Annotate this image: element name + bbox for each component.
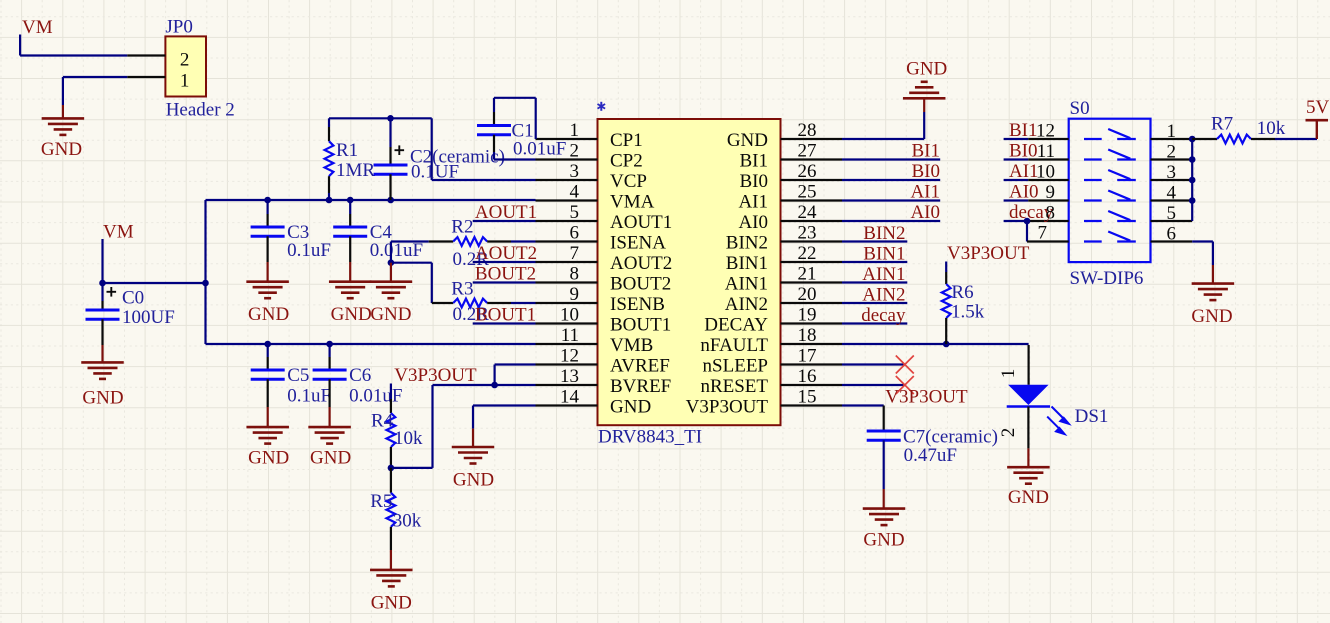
svg-text:AI0: AI0 xyxy=(1009,182,1039,203)
svg-text:ISENA: ISENA xyxy=(610,233,666,254)
svg-text:0.47uF: 0.47uF xyxy=(904,445,957,466)
svg-text:0.1UF: 0.1UF xyxy=(411,162,459,183)
svg-text:R3: R3 xyxy=(451,278,473,299)
svg-text:nSLEEP: nSLEEP xyxy=(703,356,768,377)
wire VCP net top xyxy=(329,118,536,180)
svg-text:V3P3OUT: V3P3OUT xyxy=(686,397,769,418)
svg-text:BOUT1: BOUT1 xyxy=(610,315,671,336)
svg-text:2: 2 xyxy=(180,49,190,70)
svg-text:BI0: BI0 xyxy=(740,171,769,192)
node C6 tap xyxy=(326,341,333,348)
svg-text:7: 7 xyxy=(570,243,580,264)
svg-text:nFAULT: nFAULT xyxy=(700,335,768,356)
node sense ground junction xyxy=(388,259,395,266)
svg-text:AVREF: AVREF xyxy=(610,356,670,377)
wire JP0 pin 1 to ground xyxy=(63,77,127,118)
svg-text:11: 11 xyxy=(561,325,579,346)
svg-text:10k: 10k xyxy=(1257,118,1286,139)
wire S0 pin 6 to ground xyxy=(1192,242,1213,284)
node R1 tap xyxy=(326,197,333,204)
node left column junction xyxy=(202,280,209,287)
svg-text:26: 26 xyxy=(798,161,817,182)
svg-text:23: 23 xyxy=(798,222,817,243)
svg-text:0.1uF: 0.1uF xyxy=(287,240,331,261)
svg-text:16: 16 xyxy=(798,366,817,387)
svg-text:20: 20 xyxy=(798,284,817,305)
svg-text:6: 6 xyxy=(1167,224,1177,245)
svg-text:4: 4 xyxy=(1167,183,1177,204)
U1 right pins 28-15 with numbers and names xyxy=(686,120,842,418)
node bus tap xyxy=(1189,136,1196,143)
svg-text:AOUT2: AOUT2 xyxy=(610,253,672,274)
node VM junction xyxy=(99,280,106,287)
wire BI0 stub with net label xyxy=(842,161,940,182)
ground at sense node xyxy=(370,263,413,325)
svg-text:BIN2: BIN2 xyxy=(863,223,905,244)
resistor R5 30k xyxy=(370,468,422,570)
svg-text:21: 21 xyxy=(798,263,817,284)
svg-text:R1: R1 xyxy=(336,140,358,161)
resistor R3 0.2R xyxy=(432,278,536,325)
wire C1 bottom to pin 2 xyxy=(494,158,536,160)
wire sense node to R3 xyxy=(391,263,432,303)
svg-text:JP0: JP0 xyxy=(165,16,192,37)
svg-text:19: 19 xyxy=(798,304,817,325)
svg-text:1: 1 xyxy=(998,369,1019,379)
wire VM down to junction xyxy=(101,239,103,283)
ground below C4 xyxy=(329,282,372,325)
svg-text:AOUT2: AOUT2 xyxy=(475,243,537,264)
svg-text:C0: C0 xyxy=(122,287,144,308)
svg-text:AIN2: AIN2 xyxy=(725,294,768,315)
svg-text:5V: 5V xyxy=(1306,97,1330,118)
resistor R2 0.2R xyxy=(429,217,536,271)
svg-text:0.01uF: 0.01uF xyxy=(370,240,423,261)
svg-text:GND: GND xyxy=(1008,487,1049,508)
wire AI0 stub with net label xyxy=(842,202,940,223)
node R6 junction xyxy=(943,341,950,348)
svg-text:1: 1 xyxy=(180,71,190,92)
wire AOUT1 stub with net label xyxy=(473,202,537,223)
ground below R5 xyxy=(370,570,413,613)
svg-text:BVREF: BVREF xyxy=(610,376,671,397)
wire BVREF pin 13 to divider xyxy=(391,385,536,468)
svg-text:GND: GND xyxy=(370,304,411,325)
capacitor C5 0.1uF xyxy=(251,344,331,427)
wire BOUT2 stub with net label xyxy=(473,263,536,284)
svg-text:BI1: BI1 xyxy=(912,141,941,162)
svg-text:6: 6 xyxy=(570,222,580,243)
wire AIN1 stub with net label xyxy=(842,264,907,285)
svg-text:BI1: BI1 xyxy=(1009,120,1038,141)
node C3 tap xyxy=(264,197,271,204)
wire pin 14 to ground xyxy=(473,406,536,448)
ground below LED xyxy=(1007,467,1050,508)
net label V3P3OUT at R6 xyxy=(947,243,1030,264)
svg-text:CP1: CP1 xyxy=(610,130,643,151)
ground below C6 xyxy=(308,427,351,468)
svg-text:GND: GND xyxy=(331,304,372,325)
wire left column vertical xyxy=(204,200,206,344)
switch S0 SW-DIP6 body xyxy=(1069,98,1151,289)
svg-text:DECAY: DECAY xyxy=(704,315,768,336)
wire VMB rail to pin 11 xyxy=(206,343,536,345)
S0 switch levers xyxy=(1084,129,1136,242)
no-connect cross nSLEEP pin 17 xyxy=(842,356,914,374)
wire AI1 stub with net label xyxy=(842,182,940,203)
capacitor C3 0.1uF xyxy=(251,200,331,282)
svg-text:BOUT2: BOUT2 xyxy=(475,263,536,284)
node bus tap xyxy=(1189,177,1196,184)
svg-text:3: 3 xyxy=(1167,162,1177,183)
capacitor C0 100UF xyxy=(86,283,175,362)
power port VM top-left xyxy=(22,17,53,38)
wire VM rail to VMA pin 4 xyxy=(206,199,536,201)
resistor R1 1MR xyxy=(325,118,376,200)
wire BIN1 stub with net label xyxy=(842,244,907,265)
wire R2 left to sense ground node xyxy=(391,242,429,263)
connector JP0 Header 2 xyxy=(127,16,235,120)
svg-text:DRV8843_TI: DRV8843_TI xyxy=(598,426,702,447)
svg-text:R6: R6 xyxy=(951,282,973,303)
node C4 tap xyxy=(347,197,354,204)
svg-text:GND: GND xyxy=(727,130,768,151)
svg-text:VCP: VCP xyxy=(610,171,647,192)
svg-text:BI0: BI0 xyxy=(912,161,941,182)
ground below C7 xyxy=(863,509,906,551)
svg-text:AI1: AI1 xyxy=(738,192,768,213)
svg-text:8: 8 xyxy=(1046,203,1056,224)
svg-text:AOUT1: AOUT1 xyxy=(475,202,537,223)
svg-text:BOUT1: BOUT1 xyxy=(475,304,536,325)
power port 5V xyxy=(1306,97,1330,139)
power port VM at C0 xyxy=(103,221,134,242)
ground below C0 xyxy=(81,362,124,408)
svg-text:28: 28 xyxy=(798,120,817,141)
node C5 tap xyxy=(264,341,271,348)
capacitor C7 0.47uF xyxy=(867,426,998,508)
svg-text:27: 27 xyxy=(798,140,817,161)
svg-text:25: 25 xyxy=(798,181,817,202)
svg-text:C6: C6 xyxy=(349,365,371,386)
svg-text:AOUT1: AOUT1 xyxy=(610,212,672,233)
wire VM to JP0 pin 2 xyxy=(20,35,127,56)
svg-text:DS1: DS1 xyxy=(1075,406,1109,427)
svg-text:0.01uF: 0.01uF xyxy=(349,386,402,407)
wire S0 output bus xyxy=(1191,139,1193,221)
ground below S0 xyxy=(1191,284,1234,328)
svg-text:VMA: VMA xyxy=(610,192,655,213)
svg-text:R2: R2 xyxy=(451,217,473,238)
svg-text:decay: decay xyxy=(861,305,906,326)
node decay junction xyxy=(1024,218,1031,225)
svg-text:15: 15 xyxy=(798,386,817,407)
svg-text:13: 13 xyxy=(560,366,579,387)
svg-text:AI1: AI1 xyxy=(1009,161,1039,182)
svg-text:8: 8 xyxy=(570,263,580,284)
svg-text:GND: GND xyxy=(82,387,123,408)
wire BIN2 stub with net label xyxy=(842,223,907,244)
U1 left pins 1-14 with numbers and names xyxy=(536,120,673,418)
node AVREF-BVREF junction xyxy=(491,382,498,389)
svg-text:GND: GND xyxy=(453,470,494,491)
capacitor C1 0.01uF xyxy=(477,98,566,160)
svg-text:17: 17 xyxy=(798,345,817,366)
svg-text:ISENB: ISENB xyxy=(610,294,665,315)
svg-text:V3P3OUT: V3P3OUT xyxy=(947,243,1030,264)
svg-text:0.1uF: 0.1uF xyxy=(287,386,331,407)
svg-text:1MR: 1MR xyxy=(336,160,375,181)
wire V3P3OUT pin 15 to C7 xyxy=(842,387,968,431)
node bus tap xyxy=(1189,156,1196,163)
svg-text:VMB: VMB xyxy=(610,335,653,356)
svg-text:GND: GND xyxy=(310,447,351,468)
svg-text:GND: GND xyxy=(248,447,289,468)
svg-text:1: 1 xyxy=(570,120,580,141)
wire VM junction to left column xyxy=(103,282,206,284)
svg-text:4: 4 xyxy=(570,181,580,202)
svg-text:VM: VM xyxy=(22,17,53,38)
ground below C3 xyxy=(246,282,289,325)
svg-text:Header 2: Header 2 xyxy=(166,100,235,121)
node divider junction xyxy=(388,465,395,472)
svg-text:AIN2: AIN2 xyxy=(862,285,905,306)
svg-text:2: 2 xyxy=(1167,142,1177,163)
svg-text:3: 3 xyxy=(570,161,580,182)
svg-text:AIN1: AIN1 xyxy=(862,264,905,285)
svg-text:BI0: BI0 xyxy=(1009,141,1038,162)
wire AVREF pin 12 xyxy=(495,365,536,386)
svg-text:AI1: AI1 xyxy=(910,182,940,203)
svg-text:2: 2 xyxy=(998,428,1019,438)
svg-text:SW-DIP6: SW-DIP6 xyxy=(1070,268,1144,289)
ground below JP0 xyxy=(41,118,84,159)
capacitor C4 0.01uF xyxy=(333,200,423,282)
svg-text:GND: GND xyxy=(371,592,412,613)
node C2 top tap xyxy=(387,115,394,122)
svg-text:0.01uF: 0.01uF xyxy=(513,138,566,159)
LED DS1 xyxy=(998,357,1108,467)
svg-text:R7: R7 xyxy=(1211,114,1233,135)
wire AIN2 stub with net label xyxy=(842,285,907,306)
svg-text:GND: GND xyxy=(863,530,904,551)
svg-text:18: 18 xyxy=(798,325,817,346)
resistor R6 1.5k xyxy=(942,262,985,345)
no-connect cross nRESET pin 16 xyxy=(842,376,914,394)
svg-text:S0: S0 xyxy=(1070,98,1090,119)
svg-text:100UF: 100UF xyxy=(122,307,175,328)
svg-text:GND: GND xyxy=(1191,306,1232,327)
svg-text:14: 14 xyxy=(560,386,580,407)
ground above pin 28 flipped xyxy=(903,58,947,98)
svg-text:C5: C5 xyxy=(287,365,309,386)
resistor R7 10k xyxy=(1192,114,1317,144)
svg-text:9: 9 xyxy=(1046,182,1056,203)
svg-text:AIN1: AIN1 xyxy=(725,274,768,295)
wire nFAULT to LED xyxy=(842,344,1029,357)
svg-text:AI0: AI0 xyxy=(910,202,940,223)
wire AOUT2 stub with net label xyxy=(473,243,537,264)
wire C1 top to pin 1 xyxy=(494,98,536,139)
svg-text:10: 10 xyxy=(1036,162,1055,183)
svg-text:1.5k: 1.5k xyxy=(951,301,985,322)
ground at pin 14 xyxy=(452,447,495,491)
svg-text:12: 12 xyxy=(560,345,579,366)
node bus tap xyxy=(1189,197,1196,204)
node C2 tap xyxy=(387,197,394,204)
capacitor C6 0.01uF xyxy=(313,344,403,427)
svg-text:22: 22 xyxy=(798,243,817,264)
svg-text:R4: R4 xyxy=(371,410,394,431)
svg-text:BIN1: BIN1 xyxy=(863,244,905,265)
capacitor C2 0.1UF xyxy=(374,118,505,200)
wire decay to S0 pin 7 xyxy=(1027,221,1069,244)
resistor R4 10k xyxy=(371,384,423,468)
svg-text:CP2: CP2 xyxy=(610,151,643,172)
svg-text:GND: GND xyxy=(906,58,947,79)
svg-text:V3P3OUT: V3P3OUT xyxy=(394,365,477,386)
wire BOUT1 stub with net label xyxy=(473,304,536,325)
svg-text:10k: 10k xyxy=(394,428,423,449)
svg-text:R5: R5 xyxy=(370,491,392,512)
S0 left pins 12-8 with net labels xyxy=(1004,120,1069,223)
svg-text:GND: GND xyxy=(41,139,82,160)
net label V3P3OUT at R4 xyxy=(394,365,477,386)
op-amp U1 DRV8843_TI component body xyxy=(598,102,781,448)
svg-text:V3P3OUT: V3P3OUT xyxy=(885,387,968,408)
svg-text:9: 9 xyxy=(570,284,580,305)
svg-text:5: 5 xyxy=(1167,203,1177,224)
svg-text:30k: 30k xyxy=(393,510,422,531)
svg-text:5: 5 xyxy=(570,202,580,223)
svg-text:1: 1 xyxy=(1167,121,1177,142)
svg-text:BOUT2: BOUT2 xyxy=(610,274,671,295)
svg-text:7: 7 xyxy=(1038,223,1048,244)
svg-text:12: 12 xyxy=(1036,121,1055,142)
svg-text:BI1: BI1 xyxy=(740,151,769,172)
svg-text:nRESET: nRESET xyxy=(700,376,768,397)
svg-text:GND: GND xyxy=(248,304,289,325)
svg-text:BIN1: BIN1 xyxy=(726,253,768,274)
svg-text:BIN2: BIN2 xyxy=(726,233,768,254)
svg-text:11: 11 xyxy=(1037,141,1055,162)
svg-text:VM: VM xyxy=(103,221,134,242)
svg-text:24: 24 xyxy=(798,202,818,223)
svg-text:10: 10 xyxy=(560,304,579,325)
svg-text:2: 2 xyxy=(570,140,580,161)
svg-text:GND: GND xyxy=(610,397,651,418)
svg-text:AI0: AI0 xyxy=(738,212,768,233)
wire pin 28 to ground xyxy=(842,98,924,139)
ground below C5 xyxy=(246,427,289,468)
S0 right pins 1-6 xyxy=(1151,121,1193,245)
wire decay stub with net label xyxy=(842,305,907,326)
wire BI1 stub with net label xyxy=(842,141,940,162)
